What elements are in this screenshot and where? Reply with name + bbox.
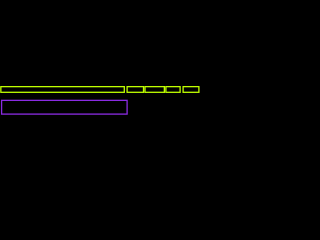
- long green bar 1: [1, 87, 124, 93]
- green bar 2: [127, 87, 143, 93]
- purple box: [2, 100, 128, 114]
- green bar 4: [166, 87, 180, 93]
- green bar 3: [145, 87, 164, 93]
- green bar 5: [183, 87, 199, 93]
